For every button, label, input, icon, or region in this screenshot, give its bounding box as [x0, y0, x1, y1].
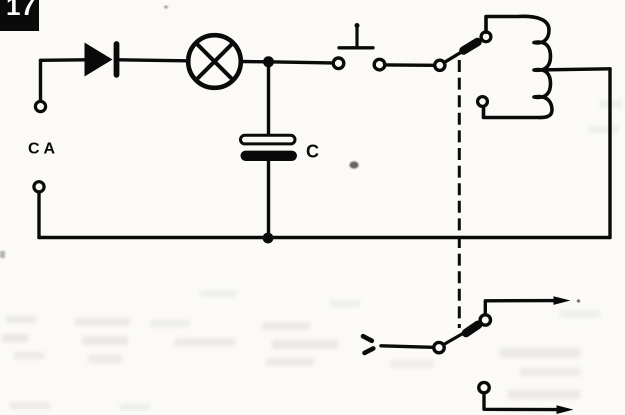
wire (bottom rail to CA bottom terminal) — [37, 192, 40, 237]
terminal CA bottom — [34, 182, 44, 192]
scan noise: small dot top — [164, 6, 168, 9]
wire (top terminal riser) — [39, 60, 42, 100]
bottom switch upper contact — [480, 315, 490, 325]
relay coil K1 — [478, 16, 552, 117]
wire with arrow (lower output) — [484, 393, 574, 414]
wire (bottom rail) — [39, 236, 610, 239]
wire (capacitor bottom lead) — [267, 160, 270, 238]
scan noise: dot after top arrow — [577, 299, 581, 302]
dashed link line (relay to contacts) — [458, 60, 461, 328]
wire (terminal to diode) — [41, 58, 85, 62]
wire (capacitor top lead) — [267, 62, 270, 135]
wire with arrow (upper output) — [485, 296, 570, 315]
wire (pushbutton to relay contact pivot) — [387, 63, 434, 67]
capacitor C — [241, 135, 298, 161]
relay contact pivot — [435, 60, 445, 70]
wire (right vertical) — [608, 69, 611, 238]
figure number box 17 — [0, 0, 39, 31]
junction node (lamp/capacitor) — [263, 56, 274, 67]
junction node (capacitor/bottom rail) — [263, 233, 274, 244]
wire (coil tap to right) — [535, 69, 610, 70]
scan noise: dark speck near pushbutton — [349, 161, 358, 168]
lamp X1 — [188, 35, 241, 88]
scan noise: ghost bleed-through marks — [2, 100, 622, 410]
terminal CA top — [35, 101, 45, 111]
wire (to bottom switch pivot) — [381, 346, 433, 348]
svg-text:C: C — [306, 142, 319, 162]
diode D1 — [85, 43, 117, 77]
scan noise: left edge mark — [0, 251, 5, 258]
relay contact arm with arrowhead — [445, 40, 482, 63]
bottom switch pivot — [434, 342, 444, 352]
bottom output terminal — [479, 382, 489, 392]
svg-text:17: 17 — [6, 0, 36, 21]
wire (lamp to junction to pushbutton) — [241, 62, 332, 63]
pushbutton S1 — [333, 23, 385, 70]
relay contact top terminal — [481, 32, 491, 42]
lead-in marks (broken wire) — [363, 336, 373, 353]
wire (diode to lamp) — [119, 60, 187, 61]
bottom switch arm with arrowhead — [444, 323, 481, 344]
svg-text:CA: CA — [28, 141, 59, 158]
